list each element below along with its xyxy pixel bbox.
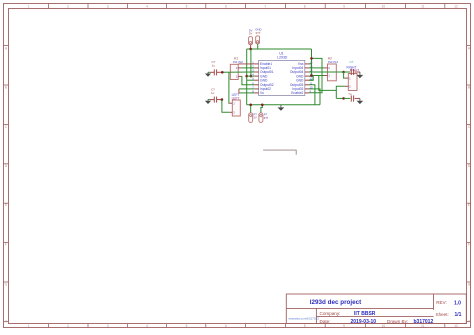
ground (right bottom) — [357, 98, 364, 104]
svg-text:8: 8 — [304, 324, 306, 328]
svg-text:REV:: REV: — [436, 300, 447, 305]
svg-text:12: 12 — [454, 324, 458, 328]
node junction top header — [249, 48, 252, 51]
pin 4 GND — [252, 73, 268, 79]
wire pin12 GND tap — [309, 76, 313, 80]
wire Input03 to gnd rail end — [309, 89, 320, 105]
wire Vs row — [240, 92, 254, 94]
svg-text:3: 3 — [107, 4, 109, 8]
capacitor C4 (right bottom) — [344, 92, 360, 102]
connector RIGHT — [345, 65, 359, 90]
svg-text:1: 1 — [28, 4, 30, 8]
svg-text:8: 8 — [304, 4, 306, 8]
svg-text:6: 6 — [225, 4, 227, 8]
svg-text:4: 4 — [146, 4, 148, 8]
svg-text:2: 2 — [67, 324, 69, 328]
node junction bottom header P4 — [261, 104, 264, 107]
CIRCUIT — [205, 27, 363, 154]
node junction pin4 row — [245, 75, 248, 78]
svg-text:5: 5 — [186, 324, 188, 328]
node A (C1 junction) — [221, 71, 224, 74]
svg-text:5: 5 — [186, 4, 188, 8]
svg-text:7: 7 — [264, 324, 266, 328]
wire top rail — [247, 48, 312, 50]
title block — [286, 294, 466, 325]
ground (C1) — [205, 72, 211, 76]
svg-text:C?: C? — [350, 60, 354, 64]
ground (C2) — [205, 100, 211, 104]
wire node C to RIGHT pin1 — [344, 72, 345, 78]
pin 13 GND — [296, 73, 313, 79]
wire branch H2pin1 down right — [319, 76, 337, 91]
svg-text:Company:: Company: — [320, 311, 341, 316]
wire branch to Enable2 riser — [309, 58, 322, 92]
wire Input04 to H2 pin2 — [309, 67, 324, 69]
pin 1 Enable1 — [252, 60, 272, 66]
svg-text:easyeda.com/b317012: easyeda.com/b317012 — [289, 317, 320, 321]
ground (bottom rail) — [278, 105, 285, 111]
header P2 (top GND) — [255, 27, 261, 49]
wire Enable1 (red) — [238, 63, 254, 65]
svg-text:1/1: 1/1 — [455, 312, 462, 318]
svg-text:1: 1 — [28, 324, 30, 328]
pin 10 Input03 — [292, 85, 313, 91]
pin 3 Output01 — [252, 69, 273, 75]
svg-text:GND: GND — [260, 78, 268, 82]
wire Input02 row — [239, 88, 255, 90]
pin 9 Enable2 — [291, 89, 311, 95]
svg-text:9: 9 — [343, 324, 345, 328]
svg-text:b317012: b317012 — [414, 319, 434, 325]
svg-text:B: B — [5, 86, 7, 90]
header P4 (bottom) — [259, 105, 269, 123]
wire Output01 to node A — [222, 71, 255, 73]
svg-text:10: 10 — [382, 4, 386, 8]
wire pin4 GND row — [247, 75, 255, 77]
pin 5 GND — [252, 77, 268, 83]
svg-text:1.0: 1.0 — [454, 300, 461, 306]
pin 2 Input01 — [252, 64, 271, 70]
capacitor C3 (right top) — [344, 60, 360, 75]
wire Output03 drop — [309, 85, 315, 105]
pin 8 Vs — [252, 89, 264, 95]
capacitor C2 — [210, 87, 222, 102]
svg-text:E: E — [5, 203, 7, 207]
connector H1 — [230, 56, 243, 79]
svg-text:5V: 5V — [249, 32, 253, 36]
connector H2 — [324, 56, 338, 80]
svg-text:Enable2: Enable2 — [291, 91, 303, 95]
wire node A down to LEFT pin1 — [228, 72, 231, 103]
svg-text:1u: 1u — [211, 91, 215, 95]
svg-text:l293d dec project: l293d dec project — [310, 299, 362, 306]
svg-text:12: 12 — [454, 4, 458, 8]
wire vertical x246.7 (rail to gnd rail) — [246, 49, 248, 105]
svg-text:3: 3 — [107, 324, 109, 328]
svg-text:6: 6 — [225, 324, 227, 328]
op-amp U1 — [259, 52, 305, 96]
wire Vss vertical x311.5 to H2 pin1 — [312, 49, 325, 76]
pin 14 Output04 — [290, 69, 313, 75]
svg-text:E: E — [468, 203, 470, 207]
svg-text:5V: 5V — [254, 115, 257, 119]
pin 15 Input04 — [292, 64, 313, 70]
svg-text:gnd: gnd — [256, 31, 261, 35]
wire pin13 GND tap — [309, 75, 312, 77]
wire H1 pin1 to Output02 — [241, 76, 254, 84]
pin 16 Vss — [298, 60, 313, 66]
svg-text:Sheet:: Sheet: — [436, 312, 449, 317]
svg-text:IIT BBSR: IIT BBSR — [354, 311, 376, 317]
header P1 (top 5V) — [249, 29, 253, 50]
svg-text:11: 11 — [421, 4, 425, 8]
wire RIGHT pin2 feed — [336, 86, 345, 98]
pin 11 Output03 — [290, 81, 313, 87]
svg-text:LEFT: LEFT — [232, 97, 240, 101]
svg-text:Date:: Date: — [320, 319, 331, 324]
pin 6 Output02 — [252, 81, 273, 87]
svg-text:F: F — [5, 243, 7, 247]
svg-text:GND: GND — [296, 78, 304, 82]
wire pin12 tap — [309, 79, 313, 81]
svg-text:1u: 1u — [212, 64, 216, 68]
connector LEFT — [229, 93, 240, 116]
header P3 (bottom) — [249, 105, 258, 123]
svg-text:2019-03-10: 2019-03-10 — [351, 319, 377, 325]
wire stub (unconnected, bottom center) — [263, 150, 296, 155]
svg-text:IN1 IN2: IN1 IN2 — [233, 60, 244, 64]
svg-text:gnd: gnd — [264, 115, 269, 119]
svg-text:B: B — [468, 86, 470, 90]
wire vertical x250.9 (header to gnd pins) — [250, 49, 252, 76]
wire H1 pin2 to Input01 — [241, 67, 254, 69]
node C (right cap top) — [342, 71, 345, 74]
svg-text:4: 4 — [146, 324, 148, 328]
svg-text:IN3 IN4: IN3 IN4 — [328, 60, 339, 64]
wire Output04 row to C3 node — [309, 71, 344, 73]
wire bottom gnd rail — [247, 104, 320, 106]
wire bottom right line A — [336, 97, 343, 99]
svg-text:L293D: L293D — [277, 56, 288, 60]
svg-text:10: 10 — [382, 324, 386, 328]
wire pin5 GND row — [247, 79, 255, 81]
node D (right cap bottom) — [342, 97, 345, 100]
node junction x311.5 H2 pin1 — [310, 74, 313, 77]
svg-text:Vs: Vs — [260, 91, 264, 95]
wire node B to LEFT pin2 — [222, 100, 230, 113]
capacitor C1 — [210, 60, 222, 75]
node B (C2 junction) — [221, 98, 224, 101]
node junction bottom header P3 — [249, 104, 252, 107]
ground (right top) — [357, 72, 364, 78]
svg-text:F: F — [468, 243, 470, 247]
wire red stub at Input02 — [239, 89, 240, 93]
svg-text:Drawn By:: Drawn By: — [387, 319, 408, 324]
pin 7 Input02 — [252, 85, 271, 91]
svg-text:7: 7 — [264, 4, 266, 8]
svg-text:9: 9 — [343, 4, 345, 8]
svg-text:2: 2 — [67, 4, 69, 8]
wire pin16 tap — [309, 63, 312, 65]
pin 12 GND — [296, 77, 313, 83]
node junction x311.5 branch — [310, 57, 313, 60]
